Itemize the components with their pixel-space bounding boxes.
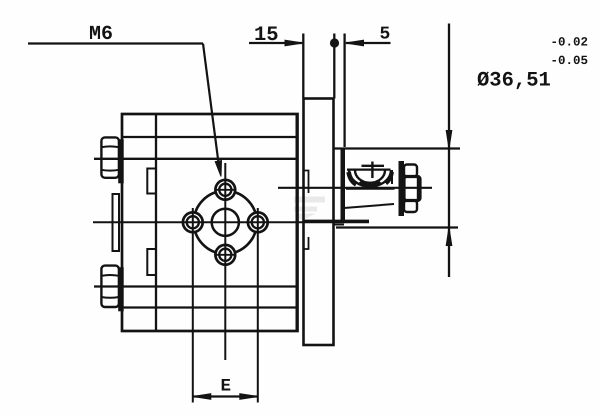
svg-text:Ø36,51: Ø36,51	[477, 70, 551, 93]
hex bolt bottom: head	[101, 266, 119, 307]
bolt hole bottom	[215, 245, 235, 265]
bearing right wedge	[386, 172, 392, 184]
dowel slot upper	[147, 169, 156, 194]
spigot face thick bar	[341, 148, 346, 222]
center bore	[212, 209, 239, 236]
svg-text:15: 15	[254, 24, 279, 47]
dim 15 extension A	[302, 34, 304, 99]
flange bore tick upper	[304, 171, 309, 194]
bolt bottom crosshair	[215, 254, 236, 256]
bearing cross	[362, 162, 385, 179]
pump body outline	[122, 114, 298, 331]
nut top band	[404, 165, 417, 177]
spigot bottom step	[335, 224, 345, 226]
E dim line	[193, 395, 258, 397]
body right edge thick	[296, 114, 299, 331]
svg-text:E: E	[221, 377, 232, 397]
shaft taper line	[344, 204, 394, 208]
rear cover joint	[155, 114, 157, 331]
bolt top crosshair	[215, 189, 236, 191]
bearing outer bowl arc	[349, 170, 391, 187]
dim common dot	[330, 38, 339, 47]
E arrow left	[193, 394, 211, 400]
svg-text:M6: M6	[89, 23, 113, 46]
main horizontal centerline	[93, 221, 369, 223]
M6 leader diagonal	[203, 44, 219, 170]
hex bolt top: washer	[119, 140, 123, 183]
bearing inner bowl arc	[355, 170, 385, 182]
dia dim arrow up	[446, 228, 452, 246]
svg-text:-0.02: -0.02	[551, 36, 589, 50]
E extension right / right bolt crosshair	[257, 208, 259, 403]
dia dim arrow down	[446, 131, 452, 149]
bearing left wedge	[349, 172, 357, 184]
dim extension bottom	[336, 226, 458, 228]
nut bottom band	[404, 201, 417, 213]
nut middle band right edge	[417, 177, 421, 200]
dim 5 extension C	[343, 34, 345, 148]
dim 5 line	[346, 42, 391, 44]
svg-text:5: 5	[380, 25, 391, 45]
dim 15 arrowhead	[285, 40, 303, 46]
watermark	[294, 197, 325, 220]
shaft centerline	[278, 187, 432, 189]
body section line lower1 / bottom bolt centerline	[94, 285, 298, 287]
body section line upper2 / top bolt centerline	[94, 158, 298, 160]
bolt hole right	[248, 212, 268, 232]
washer bar	[399, 161, 405, 216]
M6 leader horizontal	[28, 42, 203, 44]
bolt hole top	[215, 180, 235, 200]
dowel slot lower	[147, 249, 156, 275]
E extension left / left bolt crosshair	[192, 208, 194, 403]
hex bolt top: facet lines	[101, 146, 119, 170]
dim 15/5 extension B	[333, 34, 335, 99]
dim 5 arrowhead	[346, 40, 364, 46]
dim 15 line	[249, 42, 302, 44]
spigot bottom edge	[304, 220, 369, 222]
bolt hole left	[183, 212, 203, 232]
flange plate	[304, 99, 334, 346]
hex bolt bottom: facet lines	[101, 275, 119, 298]
flange bore tick lower	[304, 237, 309, 249]
front flange outline circle	[194, 191, 257, 254]
dia dim line vertical	[448, 24, 450, 278]
shaft edge overlay	[346, 188, 395, 190]
vertical centerline	[224, 163, 226, 360]
E arrow right	[240, 394, 258, 400]
bearing right edge	[391, 170, 393, 184]
hex bolt bottom: washer	[119, 268, 123, 311]
M6 leader arrowhead	[215, 161, 221, 177]
rear plate edge	[113, 194, 120, 251]
bearing top line	[347, 168, 391, 170]
body section line lower2	[122, 306, 298, 308]
hex bolt top: head	[101, 137, 119, 177]
bearing bottom crescent fill	[358, 180, 382, 186]
body section line upper1	[122, 136, 298, 138]
nut middle band	[404, 177, 420, 201]
spigot top edge / dim extension top	[333, 147, 460, 149]
svg-text:-0.05: -0.05	[551, 54, 589, 68]
